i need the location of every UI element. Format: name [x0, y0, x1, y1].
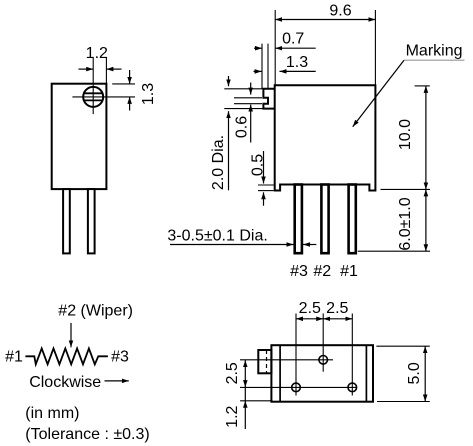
- svg-text:#2: #2: [313, 263, 331, 280]
- svg-text:5.0: 5.0: [406, 362, 423, 384]
- svg-text:0.7: 0.7: [282, 30, 304, 47]
- svg-text:1.3: 1.3: [140, 83, 157, 105]
- svg-text:#3: #3: [290, 263, 308, 280]
- svg-text:Clockwise: Clockwise: [29, 374, 101, 391]
- svg-text:10.0: 10.0: [397, 119, 414, 150]
- svg-text:(in mm): (in mm): [25, 405, 79, 422]
- svg-text:1.2: 1.2: [224, 405, 241, 427]
- svg-text:(Tolerance : ±0.3): (Tolerance : ±0.3): [25, 426, 149, 443]
- svg-text:#1: #1: [340, 263, 358, 280]
- svg-text:6.0±1.0: 6.0±1.0: [397, 197, 414, 250]
- svg-text:Marking: Marking: [406, 43, 463, 60]
- svg-text:2.5: 2.5: [224, 362, 241, 384]
- svg-text:#1: #1: [5, 349, 23, 366]
- svg-text:3-0.5±0.1 Dia.: 3-0.5±0.1 Dia.: [167, 228, 267, 245]
- svg-text:1.2: 1.2: [86, 45, 108, 62]
- svg-text:1.3: 1.3: [286, 54, 308, 71]
- svg-text:2.5: 2.5: [299, 300, 321, 317]
- svg-text:0.6: 0.6: [234, 116, 251, 138]
- svg-text:2.0 Dia.: 2.0 Dia.: [210, 135, 227, 190]
- svg-text:2.5: 2.5: [326, 300, 348, 317]
- svg-text:9.6: 9.6: [329, 3, 351, 20]
- svg-text:0.5: 0.5: [250, 154, 267, 176]
- svg-text:#3: #3: [111, 349, 129, 366]
- svg-text:#2 (Wiper): #2 (Wiper): [58, 303, 133, 320]
